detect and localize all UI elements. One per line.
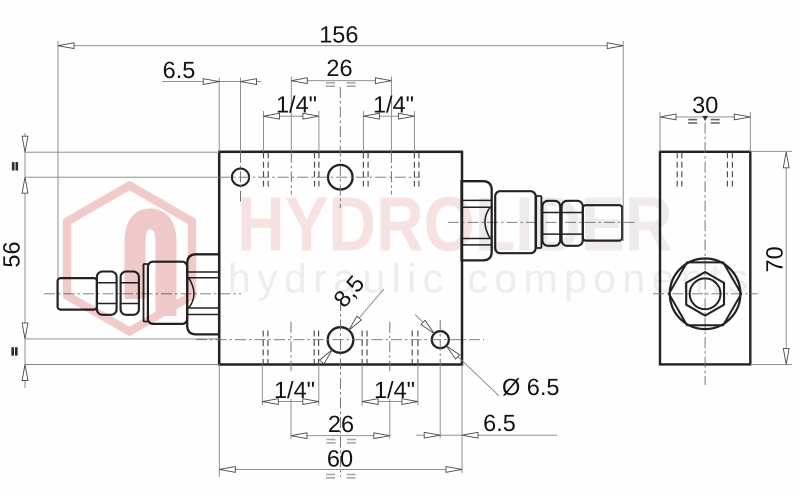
svg-text:1/4": 1/4": [374, 377, 415, 403]
svg-text:26: 26: [328, 411, 354, 437]
svg-text:26: 26: [326, 55, 352, 81]
svg-text:6.5: 6.5: [483, 410, 516, 436]
svg-text:60: 60: [327, 446, 353, 472]
svg-text:70: 70: [761, 246, 787, 272]
svg-text:1/4": 1/4": [276, 91, 317, 117]
svg-text:56: 56: [0, 241, 24, 267]
svg-text:Ø 6.5: Ø 6.5: [502, 374, 559, 400]
svg-text:hydraulic components: hydraulic components: [228, 256, 755, 302]
svg-text:1/4": 1/4": [373, 91, 414, 117]
svg-text:30: 30: [692, 92, 718, 118]
svg-text:156: 156: [319, 22, 358, 48]
svg-text:6.5: 6.5: [163, 57, 196, 83]
svg-text:HYDROLIDER: HYDROLIDER: [237, 182, 672, 268]
svg-text:1/4": 1/4": [274, 377, 315, 403]
